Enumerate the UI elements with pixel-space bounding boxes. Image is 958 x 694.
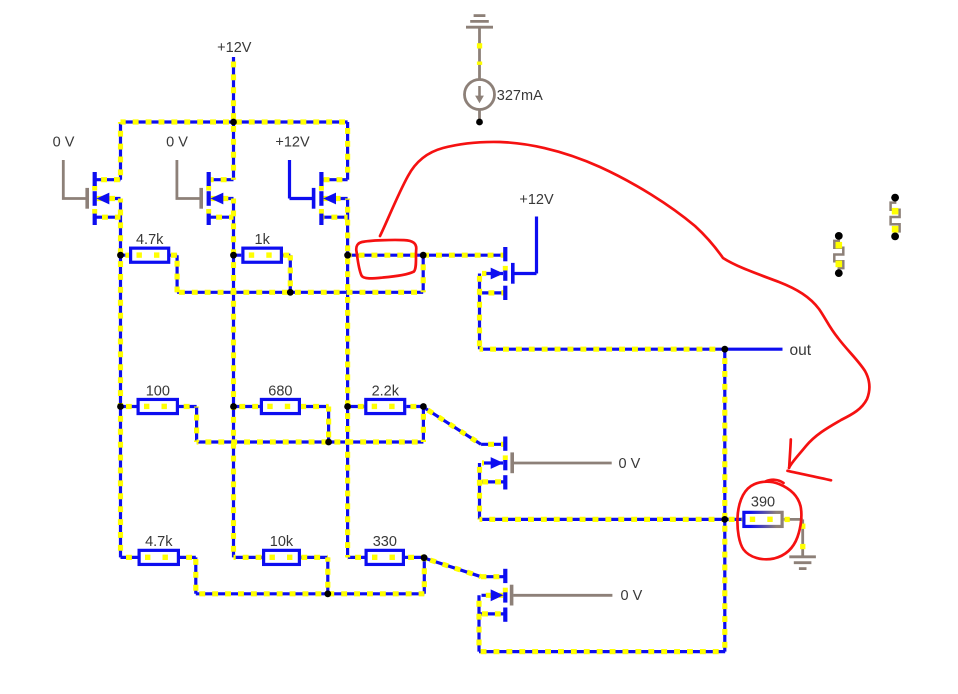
svg-text:330: 330 (373, 534, 397, 550)
svg-text:4.7k: 4.7k (136, 232, 164, 248)
svg-text:2.2k: 2.2k (372, 383, 400, 399)
svg-text:out: out (790, 342, 812, 359)
svg-text:100: 100 (146, 383, 170, 399)
svg-text:0 V: 0 V (166, 135, 188, 151)
svg-text:390: 390 (751, 495, 775, 511)
svg-text:680: 680 (268, 383, 292, 399)
svg-text:4.7k: 4.7k (145, 534, 173, 550)
svg-text:0 V: 0 V (621, 588, 643, 604)
svg-text:1k: 1k (255, 232, 271, 248)
svg-text:+12V: +12V (217, 40, 252, 56)
svg-text:+12V: +12V (519, 192, 554, 208)
svg-text:+12V: +12V (275, 135, 310, 151)
svg-text:327mA: 327mA (497, 88, 543, 104)
svg-text:0 V: 0 V (53, 135, 75, 151)
svg-text:10k: 10k (270, 534, 294, 550)
svg-text:0 V: 0 V (619, 456, 641, 472)
